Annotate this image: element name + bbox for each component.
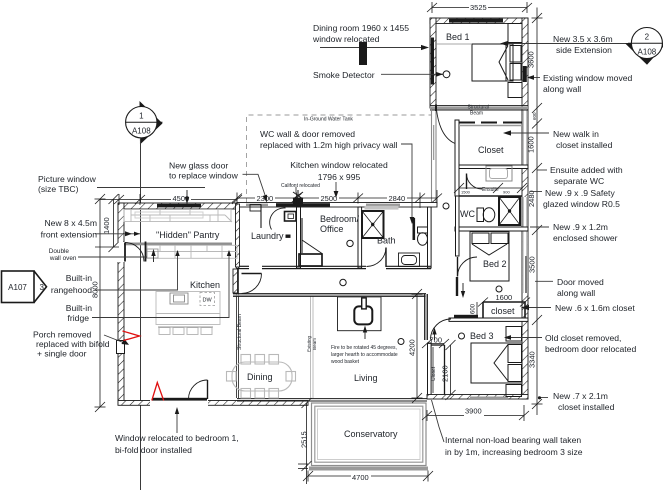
svg-text:window relocated: window relocated bbox=[312, 34, 380, 44]
room labels bbox=[156, 32, 515, 439]
bedroom/office desk bbox=[299, 218, 322, 266]
dim 4500 bbox=[100, 194, 242, 205]
svg-text:Existing: Existing bbox=[307, 335, 312, 352]
red arrow porch bbox=[123, 331, 140, 341]
dim right column vertical bbox=[532, 8, 543, 416]
svg-text:3340: 3340 bbox=[528, 351, 537, 368]
wall: closet room bottom bbox=[455, 165, 528, 169]
door: bifold bottom bbox=[189, 380, 208, 399]
bath vanity counter bbox=[365, 206, 399, 210]
wall: wing west (closet/ensuite/WC) bbox=[455, 120, 459, 196]
dimension labels bbox=[171, 3, 488, 479]
svg-text:3500: 3500 bbox=[528, 256, 537, 273]
svg-text:Living: Living bbox=[354, 373, 378, 383]
living bottom: bifold to conservatory bbox=[237, 399, 427, 401]
ensuite shower bbox=[499, 197, 520, 225]
leader: door moved bbox=[535, 280, 553, 282]
svg-text:Built-in: Built-in bbox=[66, 273, 92, 283]
arrow up at bed3 door bbox=[434, 331, 436, 340]
svg-text:1600: 1600 bbox=[527, 136, 536, 153]
right wall gray section at closet bbox=[522, 111, 527, 167]
wall: middle strip bottom bbox=[237, 266, 431, 268]
wall: right exterior (bed1 to bed3) bbox=[522, 18, 528, 399]
svg-text:Double: Double bbox=[49, 248, 70, 255]
leader: califont bbox=[295, 187, 297, 193]
wall: WC/ensuite divider bbox=[459, 195, 522, 197]
dim 2300 2500 2840 bbox=[232, 190, 442, 208]
small circles (detectors / handles) bbox=[340, 71, 502, 345]
wall: west window-wall below bed1 (existing, gray) bbox=[432, 108, 437, 203]
dim 1600 closet bbox=[478, 298, 530, 307]
svg-text:glazed window R0.5: glazed window R0.5 bbox=[543, 199, 620, 209]
section marker 2/A108 right bbox=[625, 28, 663, 65]
dim 2515 bbox=[298, 398, 312, 484]
svg-text:New 8 x 4.5m: New 8 x 4.5m bbox=[44, 218, 97, 228]
tiny labels bbox=[237, 105, 499, 382]
dim 700 bbox=[422, 339, 449, 348]
bath toilet bbox=[418, 227, 428, 245]
leader: enclosed shower bbox=[530, 226, 549, 228]
laundry bench bbox=[250, 205, 296, 229]
svg-text:Bedroom/: Bedroom/ bbox=[320, 214, 360, 224]
door: laundry bbox=[270, 208, 286, 230]
leader: side extension bbox=[505, 43, 549, 45]
svg-text:Dining room 1960 x 1455: Dining room 1960 x 1455 bbox=[313, 23, 409, 33]
dining table bbox=[227, 355, 296, 399]
furniture bbox=[124, 24, 522, 399]
svg-text:Califont relocated: Califont relocated bbox=[281, 183, 320, 189]
leader: rangehood bbox=[95, 252, 178, 290]
svg-text:New .7 x 2.1m: New .7 x 2.1m bbox=[553, 391, 608, 401]
svg-text:side Extension: side Extension bbox=[556, 45, 612, 55]
svg-text:New 3.5 x 3.6m: New 3.5 x 3.6m bbox=[553, 34, 613, 44]
svg-text:bedroom door relocated: bedroom door relocated bbox=[545, 344, 636, 354]
window: laundry gray bbox=[246, 204, 268, 206]
svg-text:Closet: Closet bbox=[478, 145, 504, 155]
section marker 1/A108 top bbox=[126, 101, 163, 145]
svg-text:A107: A107 bbox=[8, 283, 27, 292]
dim 2100 bbox=[446, 340, 456, 400]
wall: front extension bottom bbox=[118, 401, 308, 406]
water tank dashed boundary bbox=[247, 115, 432, 203]
door: bed2 bbox=[458, 257, 478, 277]
dim left 8000 vertical bbox=[95, 194, 106, 412]
wall: kitchen east (old exterior, hatched) bbox=[236, 204, 240, 267]
svg-text:WC wall & door removed: WC wall & door removed bbox=[260, 129, 355, 139]
red triangle door bbox=[152, 383, 164, 401]
door: bath bbox=[367, 248, 387, 267]
svg-text:2100: 2100 bbox=[441, 365, 450, 382]
svg-text:3600: 3600 bbox=[527, 51, 536, 68]
svg-text:+ single door: + single door bbox=[37, 349, 87, 359]
leader: new closet 1.6 bbox=[526, 307, 551, 309]
closet room vanity bbox=[486, 166, 512, 181]
svg-text:Laundry: Laundry bbox=[251, 231, 284, 241]
svg-text:Dining: Dining bbox=[247, 372, 273, 382]
svg-text:A108: A108 bbox=[638, 48, 657, 57]
kitchen island bbox=[156, 292, 220, 325]
svg-text:2: 2 bbox=[645, 33, 650, 42]
svg-text:enclosed shower: enclosed shower bbox=[553, 233, 618, 243]
svg-text:to replace window: to replace window bbox=[169, 171, 239, 181]
bed 1 double bed bbox=[436, 24, 522, 98]
conservatory bbox=[309, 403, 428, 469]
svg-text:wood basket: wood basket bbox=[331, 359, 360, 365]
svg-text:A108: A108 bbox=[132, 127, 151, 136]
svg-text:Office: Office bbox=[320, 224, 343, 234]
svg-text:closet: closet bbox=[491, 306, 515, 316]
kitchen stools bbox=[158, 327, 213, 335]
wall: bed3 bottom bbox=[427, 395, 528, 400]
wall: bed1 top bbox=[430, 18, 528, 24]
door relocated bold on bed3 top bbox=[454, 315, 478, 318]
svg-text:along wall: along wall bbox=[557, 288, 595, 298]
wall: small closet box bbox=[483, 302, 525, 318]
svg-text:Porch removed: Porch removed bbox=[33, 330, 91, 340]
svg-text:1400: 1400 bbox=[102, 217, 111, 234]
svg-text:3: 3 bbox=[40, 283, 45, 292]
svg-text:New walk in: New walk in bbox=[553, 129, 599, 139]
wall: bedroom/bath divider bbox=[358, 207, 362, 268]
bed 3 double bed bbox=[471, 327, 522, 397]
svg-text:1: 1 bbox=[139, 112, 144, 121]
bifold door bold bbox=[152, 398, 207, 401]
kitchen counters bbox=[147, 245, 237, 258]
svg-text:Bed 2: Bed 2 bbox=[483, 259, 507, 269]
svg-text:(size TBC): (size TBC) bbox=[38, 184, 79, 194]
svg-text:front extension: front extension bbox=[41, 230, 98, 240]
svg-text:1796 x 995: 1796 x 995 bbox=[318, 172, 361, 182]
svg-text:2500: 2500 bbox=[321, 194, 338, 203]
svg-text:Structural Beam: Structural Beam bbox=[237, 314, 243, 350]
svg-text:rangehood: rangehood bbox=[51, 285, 92, 295]
wall: front extension left bbox=[118, 203, 124, 405]
leader: kitchen window bbox=[335, 182, 337, 194]
svg-text:larger hearth to accommodate: larger hearth to accommodate bbox=[331, 352, 398, 358]
svg-text:Picture window: Picture window bbox=[38, 174, 97, 184]
svg-text:WC: WC bbox=[460, 209, 475, 219]
window: bed1 left bold (relocated) bbox=[431, 38, 434, 85]
wall: bed3 top bbox=[449, 318, 528, 321]
window: bed3 bottom gray bbox=[470, 397, 508, 400]
arrow down at 4500 window bbox=[186, 190, 188, 201]
svg-text:New glass door: New glass door bbox=[169, 161, 228, 171]
pantry cabinetry bbox=[124, 210, 232, 223]
svg-text:New .9 x 1.2m: New .9 x 1.2m bbox=[553, 222, 608, 232]
leader: porch removed bbox=[104, 335, 127, 344]
leader: walk in closet bbox=[508, 132, 549, 134]
dim 4200 bbox=[412, 289, 423, 403]
svg-text:Door moved: Door moved bbox=[557, 277, 604, 287]
ensuite small dim bbox=[454, 183, 527, 193]
privacy wall bold bbox=[413, 218, 416, 240]
misc arrows near walls bbox=[185, 190, 465, 340]
svg-text:900: 900 bbox=[503, 190, 510, 195]
bath tub bbox=[399, 253, 420, 267]
door: bed3 from hall bbox=[431, 319, 452, 340]
front extension: top wall bbox=[118, 203, 237, 209]
svg-text:Beam: Beam bbox=[470, 111, 483, 117]
bed3 closet interior line bbox=[432, 347, 434, 393]
svg-text:In-Ground Water Tank: In-Ground Water Tank bbox=[304, 117, 353, 123]
svg-text:replaced with 1.2m high privac: replaced with 1.2m high privacy wall bbox=[260, 140, 398, 150]
leader: dining window bbox=[320, 47, 426, 49]
leader: smoke detector bbox=[381, 73, 436, 75]
wall: laundry/bedroom divider bbox=[297, 207, 301, 268]
svg-text:closet installed: closet installed bbox=[558, 402, 615, 412]
doors bbox=[125, 105, 522, 400]
leader: ensuite added bbox=[537, 169, 547, 171]
leader: front extension arrow bbox=[95, 233, 132, 235]
window: bed1 top bold bbox=[449, 19, 503, 23]
svg-text:4200: 4200 bbox=[408, 339, 417, 356]
leader: fridge bbox=[92, 252, 229, 318]
svg-text:in by 1m, increasing bedroom 3: in by 1m, increasing bedroom 3 size bbox=[445, 447, 583, 457]
leader: double wall oven bbox=[78, 256, 147, 258]
svg-text:Built-in: Built-in bbox=[66, 303, 92, 313]
svg-text:Smoke Detector: Smoke Detector bbox=[313, 70, 375, 80]
wall: bed1 bottom bbox=[430, 106, 528, 110]
svg-text:3900: 3900 bbox=[465, 407, 482, 416]
svg-text:along wall: along wall bbox=[543, 84, 581, 94]
door opening gap on left wall bbox=[117, 242, 125, 262]
pantry lower gray wall bbox=[124, 243, 232, 246]
right wall gray window at bed2 bbox=[522, 231, 527, 293]
svg-text:700: 700 bbox=[430, 336, 443, 345]
dim 1400 bbox=[95, 194, 119, 252]
svg-text:2515: 2515 bbox=[300, 431, 309, 448]
wall: bed2 west bbox=[456, 196, 460, 256]
califont symbol bbox=[293, 190, 303, 205]
svg-text:Closet: Closet bbox=[431, 366, 437, 381]
opening: bifold at bottom bbox=[150, 400, 208, 407]
wall: WC bottom / bed2 top bbox=[455, 227, 528, 231]
living right wall bbox=[425, 294, 428, 340]
svg-text:New .9 x .9 Safety: New .9 x .9 Safety bbox=[545, 188, 615, 198]
bed 2 double bed bbox=[470, 232, 509, 282]
WC toilet bbox=[477, 208, 495, 222]
door: pantry left double bbox=[125, 243, 144, 262]
svg-text:fridge: fridge bbox=[68, 313, 90, 323]
svg-text:bi-fold door installed: bi-fold door installed bbox=[115, 445, 192, 455]
svg-text:1600: 1600 bbox=[496, 293, 513, 302]
dim 3525 top bbox=[427, 2, 532, 13]
svg-text:closet installed: closet installed bbox=[556, 140, 613, 150]
svg-text:Ensuite added with: Ensuite added with bbox=[550, 165, 623, 175]
window: pantry top bold (4500 window) bbox=[157, 204, 201, 208]
svg-text:2840: 2840 bbox=[389, 194, 406, 203]
wall oven bbox=[147, 249, 158, 258]
structural beam below kitchen wall bbox=[237, 267, 239, 398]
svg-text:Beam: Beam bbox=[312, 338, 317, 350]
leader: old closet removed bbox=[508, 337, 542, 339]
DW dashed bbox=[200, 293, 215, 306]
svg-text:replaced with bifold: replaced with bifold bbox=[36, 339, 110, 349]
wall: bed3 west bbox=[428, 343, 432, 399]
svg-text:Conservatory: Conservatory bbox=[344, 429, 398, 439]
svg-text:separate WC: separate WC bbox=[554, 176, 604, 186]
door: closet top opening dashes bbox=[459, 122, 522, 124]
svg-text:Bath: Bath bbox=[377, 236, 396, 246]
dimension lines bbox=[95, 2, 543, 484]
leader lines bbox=[78, 41, 628, 442]
svg-text:2480: 2480 bbox=[527, 190, 536, 207]
svg-text:"Hidden" Pantry: "Hidden" Pantry bbox=[156, 230, 220, 240]
wall: bed1 left bbox=[430, 18, 436, 108]
wall: bed2/corridor lower west stub bbox=[456, 277, 458, 296]
porch jog on left wall bbox=[117, 341, 125, 354]
window: bath gray bbox=[366, 204, 400, 206]
walls group bbox=[117, 18, 529, 407]
door: ensuite bbox=[467, 174, 483, 190]
dim 3900 bbox=[422, 405, 529, 421]
window: bed1 right bold bbox=[523, 66, 527, 82]
leader: internal wall bbox=[432, 400, 445, 442]
middle strip: top wall bbox=[237, 203, 437, 208]
svg-text:Window relocated to bedroom 1,: Window relocated to bedroom 1, bbox=[115, 433, 239, 443]
svg-text:wall oven: wall oven bbox=[49, 255, 77, 262]
window: kitchen window relocated bold bbox=[276, 203, 330, 206]
leader: picture window bbox=[97, 187, 205, 189]
svg-text:Fire to be rotated 45 degrees,: Fire to be rotated 45 degrees, bbox=[331, 345, 397, 351]
leader: closet installed dot bbox=[540, 397, 548, 399]
arrow up at fireplace bbox=[364, 329, 366, 339]
svg-text:New .6 x 1.6m closet: New .6 x 1.6m closet bbox=[555, 303, 635, 313]
leader: existing window moved bbox=[531, 77, 540, 79]
wall: bath east bbox=[428, 207, 432, 268]
leader: WC wall removed bbox=[401, 144, 412, 219]
dim 4700 bbox=[303, 471, 433, 482]
door: bed1 to closet bbox=[437, 110, 456, 144]
existing beam at living/dining bbox=[311, 296, 314, 399]
leader: glass door bbox=[243, 174, 267, 198]
dim 600 closet bbox=[476, 302, 478, 318]
wall: bed3 closet partition bbox=[431, 345, 445, 395]
hall west wall + door bbox=[233, 269, 238, 293]
living top wall bbox=[233, 294, 426, 297]
svg-text:1500: 1500 bbox=[461, 190, 471, 195]
svg-text:Kitchen window relocated: Kitchen window relocated bbox=[290, 160, 388, 170]
svg-text:600: 600 bbox=[532, 112, 537, 120]
svg-text:Bed 3: Bed 3 bbox=[470, 331, 494, 341]
svg-text:Internal non-load bearing wall: Internal non-load bearing wall taken bbox=[445, 435, 581, 445]
section cut line 1 vertical bbox=[140, 137, 142, 490]
annotations right bbox=[445, 34, 636, 457]
svg-text:600: 600 bbox=[471, 303, 477, 314]
door: kitchen hall bbox=[242, 274, 262, 294]
svg-text:DW: DW bbox=[203, 298, 213, 304]
svg-text:3525: 3525 bbox=[470, 3, 487, 12]
svg-text:Old closet removed,: Old closet removed, bbox=[545, 333, 621, 343]
fireplace bbox=[338, 297, 382, 331]
annotations top bbox=[169, 23, 409, 182]
svg-text:Bed 1: Bed 1 bbox=[446, 32, 470, 42]
svg-text:4700: 4700 bbox=[352, 473, 369, 482]
leader: window relocated bottom bbox=[176, 410, 178, 433]
arrow down at bed2 corridor bbox=[462, 283, 464, 294]
annotations left bbox=[33, 174, 239, 455]
bath shower bbox=[362, 211, 384, 238]
red markers bbox=[123, 331, 164, 401]
right wall gray window at shower bbox=[522, 197, 527, 227]
section marker A107/3 left bbox=[2, 271, 47, 303]
svg-text:Kitchen: Kitchen bbox=[190, 280, 220, 290]
leader: safety glazed window bbox=[530, 191, 542, 193]
svg-text:Existing window moved: Existing window moved bbox=[543, 73, 633, 83]
